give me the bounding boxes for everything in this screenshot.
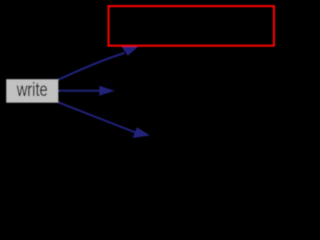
svg-text:write: write: [16, 80, 48, 101]
node write (current function): [6, 79, 58, 103]
wire edge from write to bottom node: [58, 102, 136, 132]
node: red-outlined truncated node: [109, 6, 274, 46]
wire edge from write to top red node: [58, 53, 124, 80]
arrowhead middle: [99, 86, 115, 96]
arrowhead into red box bottom: [121, 46, 138, 56]
arrowhead bottom: [133, 127, 151, 138]
wire edge from write to middle node: [58, 90, 101, 92]
